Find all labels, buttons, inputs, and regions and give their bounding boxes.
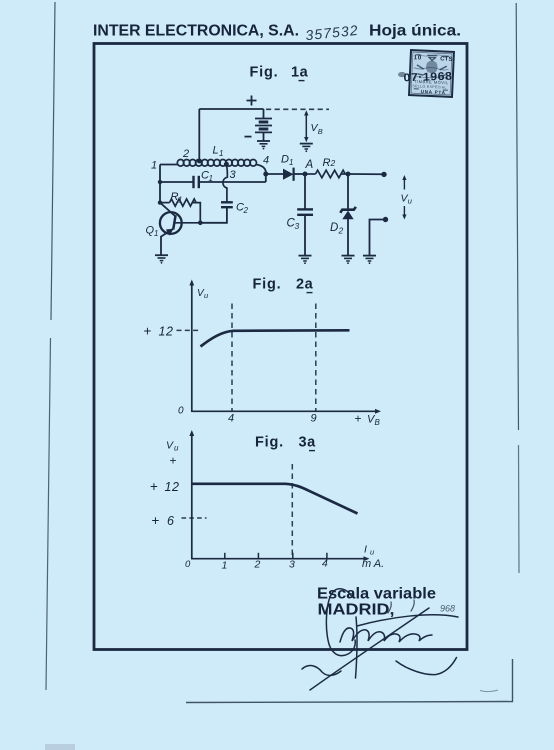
wire bottom terminal to ground	[370, 220, 386, 256]
left fold line artifact	[51, 2, 55, 320]
fig3 dashed level 6 line	[182, 517, 207, 519]
svg-text:3: 3	[230, 169, 237, 181]
svg-text:I: I	[364, 544, 367, 556]
svg-text:B: B	[375, 418, 381, 427]
fig2 dashed level line	[177, 329, 202, 331]
dashed wire from battery plus to VB	[266, 108, 329, 110]
wire to output terminal	[348, 173, 384, 175]
svg-text:Fig.: Fig.	[253, 277, 282, 293]
fig2 y axis	[191, 283, 193, 412]
wire node4 to D1	[266, 173, 283, 175]
stamp date overprint	[403, 71, 452, 85]
svg-text:1: 1	[151, 160, 157, 172]
wire tap2 vertical	[198, 109, 200, 161]
inductor L1	[177, 160, 184, 167]
svg-text:10: 10	[414, 55, 423, 61]
bottom-right page corner lines	[186, 659, 513, 703]
svg-text:+: +	[355, 412, 362, 426]
svg-text:+: +	[144, 324, 152, 339]
tap 2 junction blob	[197, 159, 202, 164]
svg-text:1: 1	[209, 174, 213, 183]
svg-text:3a: 3a	[299, 435, 317, 451]
node 4 junction dot	[263, 172, 268, 177]
VB measuring arrow	[304, 110, 308, 142]
fig3 y axis	[191, 433, 193, 559]
coil right end curve to node 4	[256, 165, 266, 183]
svg-text:0: 0	[185, 559, 191, 570]
battery B plus sign	[247, 96, 257, 106]
left vertical wire node1 to C1 to R1	[159, 165, 161, 203]
capacitor C1	[160, 176, 266, 188]
svg-text:1a: 1a	[291, 65, 309, 81]
svg-text:B: B	[318, 127, 323, 136]
svg-text:3: 3	[289, 559, 295, 571]
fiscal stamp	[409, 50, 454, 97]
svg-text:2: 2	[330, 158, 336, 168]
svg-text:2: 2	[254, 559, 261, 571]
ground under VB arrow	[300, 143, 313, 145]
fig3 dashed vertical at 3	[291, 464, 293, 558]
svg-text:+: +	[150, 479, 158, 494]
wire D1 to node A	[294, 173, 305, 175]
svg-text:m A.: m A.	[362, 558, 384, 570]
base wire into transistor	[175, 222, 200, 224]
svg-text:4: 4	[263, 155, 269, 167]
svg-text:12: 12	[159, 325, 174, 339]
svg-text:R: R	[323, 157, 331, 169]
svg-text:+: +	[152, 513, 160, 528]
zener diode D2	[340, 174, 356, 255]
svg-text:968: 968	[440, 604, 455, 614]
svg-text:1: 1	[222, 560, 228, 572]
svg-text:12: 12	[165, 480, 180, 494]
capacitor C2	[200, 202, 233, 223]
diode D1	[283, 169, 293, 180]
svg-text:2: 2	[243, 206, 249, 215]
svg-text:07·1968: 07·1968	[403, 71, 452, 85]
battery B minus sign	[245, 136, 252, 138]
svg-text:D: D	[281, 154, 289, 166]
svg-text:0: 0	[178, 406, 184, 417]
svg-text:INTER ELECTRONICA, S.A.: INTER ELECTRONICA, S.A.	[93, 23, 299, 40]
fig2 x axis	[191, 410, 378, 412]
ground under battery	[257, 140, 270, 142]
right page edge line	[516, 3, 518, 430]
svg-text:Fig.: Fig.	[255, 435, 284, 451]
fig2 response curve	[201, 330, 350, 346]
svg-text:4: 4	[228, 413, 234, 425]
base junction dot	[198, 221, 203, 226]
ground under D2	[342, 255, 355, 257]
svg-text:2a: 2a	[296, 277, 314, 293]
svg-text:1: 1	[178, 196, 182, 205]
ground under C3	[299, 255, 312, 257]
ground under output return	[363, 255, 376, 257]
transistor Q1	[160, 203, 182, 255]
fig2 dashed vertical at 4	[231, 304, 233, 412]
svg-text:2: 2	[182, 148, 189, 160]
svg-text:4: 4	[322, 558, 328, 570]
output bottom terminal dot	[383, 217, 388, 222]
svg-text:3: 3	[295, 221, 300, 231]
svg-text:9: 9	[311, 413, 317, 425]
svg-text:Hoja única.: Hoja única.	[369, 23, 461, 40]
svg-text:1: 1	[154, 229, 158, 238]
signature flourish	[302, 589, 458, 690]
tap 3 dot on coil	[224, 162, 229, 167]
sheet border frame	[94, 44, 467, 650]
junction dot C1 left	[158, 180, 162, 184]
ground under Q1 emitter	[155, 254, 168, 256]
resistor R1	[160, 199, 200, 223]
junction dot R1 left	[158, 200, 162, 204]
battery B cells	[255, 109, 272, 141]
node A dot	[303, 172, 308, 177]
svg-text:Fig.: Fig.	[250, 65, 279, 81]
tap 3 wire with hop over C1 line	[223, 164, 227, 202]
fig2 dashed vertical at 9	[315, 304, 317, 412]
output terminal top dot	[381, 172, 386, 177]
node 1 stub wire	[160, 164, 178, 166]
fig3 axis ticks	[225, 553, 327, 559]
Vu measuring arrow lower	[402, 206, 406, 220]
junction dot after R2	[346, 172, 351, 177]
fig3 x axis	[191, 558, 367, 560]
wire battery top horizontal	[199, 108, 263, 110]
svg-text:+: +	[170, 454, 177, 468]
svg-text:CTS: CTS	[440, 56, 453, 63]
resistor R2	[305, 170, 348, 178]
capacitor C3	[297, 174, 313, 255]
svg-text:L: L	[213, 145, 219, 157]
Q1 emitter arrowhead (PNP)	[166, 229, 174, 236]
svg-text:MADRID,: MADRID,	[318, 602, 395, 619]
fig3 response curve	[192, 484, 358, 514]
svg-text:6: 6	[167, 514, 174, 528]
Vu measuring arrow upper	[402, 175, 406, 190]
svg-text:1: 1	[289, 158, 293, 167]
svg-text:A: A	[305, 159, 314, 171]
svg-text:2: 2	[338, 226, 344, 236]
svg-text:1: 1	[219, 149, 223, 158]
svg-text:D: D	[330, 222, 338, 234]
svg-text:V: V	[166, 440, 174, 452]
bottom-left gray tab	[45, 744, 75, 750]
svg-text:Escala variable: Escala variable	[317, 586, 436, 603]
svg-text:u: u	[174, 444, 179, 453]
